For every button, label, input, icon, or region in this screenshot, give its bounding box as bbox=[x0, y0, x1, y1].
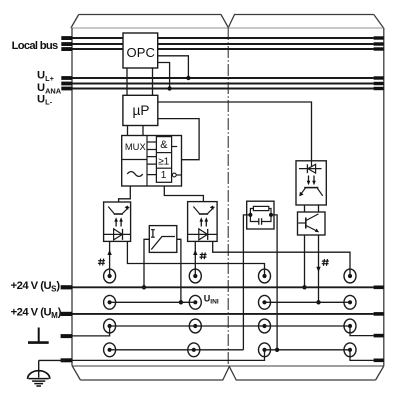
gate stack box bbox=[156, 137, 171, 183]
power bus pad right 1 bbox=[374, 76, 384, 79]
FE row D line bbox=[72, 350, 265, 361]
input arrow channel 2 bbox=[194, 241, 196, 276]
module center dash-dot line bbox=[227, 28, 229, 366]
housing top inner line bbox=[71, 27, 384, 29]
wire uP to MUX right bbox=[142, 126, 144, 136]
UINI row right segment bbox=[265, 301, 351, 303]
circle row1 c2 bbox=[189, 295, 201, 309]
junction dot Q1 to US rail bbox=[302, 285, 306, 289]
svg-text:Local bus: Local bus bbox=[12, 40, 58, 52]
local bus line 3 bbox=[72, 48, 374, 50]
uP box U2 bbox=[123, 95, 158, 125]
junction dot I box to US rail bbox=[142, 285, 146, 289]
wire opto2 cathode return bbox=[213, 241, 350, 276]
housing bottom-left chamfer bbox=[72, 366, 80, 380]
Q1 collector bbox=[306, 214, 319, 221]
circle row2 c1 bbox=[104, 319, 116, 333]
FE row right (row3) bbox=[265, 349, 351, 351]
inverter output tick bbox=[176, 174, 181, 176]
US pad right bbox=[374, 286, 384, 290]
housing right edge bbox=[383, 28, 385, 366]
gate input ticks bbox=[147, 142, 156, 175]
I box left pin bbox=[144, 239, 149, 287]
housing bottom inner line bbox=[72, 365, 384, 367]
GND row (row2) bbox=[110, 325, 350, 327]
local bus line 2 bbox=[72, 43, 374, 45]
junction dot on UL+ line bbox=[186, 76, 190, 80]
svg-text:≥1: ≥1 bbox=[158, 156, 170, 167]
circle row0 c4 bbox=[344, 269, 356, 283]
RC right leg to FE row bbox=[271, 215, 277, 350]
circle row0 c1 bbox=[104, 269, 116, 283]
power bus pad right 3 bbox=[374, 87, 384, 90]
input channel 1 # label bbox=[98, 259, 105, 266]
svg-text:OPC: OPC bbox=[127, 45, 155, 60]
local bus pad left 2 bbox=[61, 42, 72, 46]
svg-text:MUX: MUX bbox=[125, 141, 147, 152]
junction dot on UL- line bbox=[167, 86, 171, 90]
local bus line 1 bbox=[72, 37, 374, 39]
OC3 to transistor pins bbox=[305, 205, 319, 212]
earth symbol bbox=[39, 360, 65, 377]
output channel # label bbox=[322, 259, 329, 266]
I box right pin bbox=[177, 239, 181, 302]
wire OPC to uP right bbox=[152, 68, 154, 95]
circle row1 c4 bbox=[344, 295, 356, 309]
wire OPC to power bus line 3 bbox=[158, 63, 170, 89]
GND pad link right bbox=[350, 326, 374, 336]
circle row3 c3 bbox=[259, 343, 271, 357]
Q1 base bar bbox=[305, 218, 307, 229]
circle row0 c2 bbox=[189, 269, 201, 283]
Q1 output leg with arrow to UINI row bbox=[318, 235, 320, 302]
FE pad left bbox=[61, 358, 73, 362]
OC1 phototransistor bbox=[114, 213, 123, 215]
input arrow channel 1 bbox=[109, 241, 111, 276]
housing bottom-right chamfer bbox=[376, 366, 384, 380]
sine symbol in MUX lower cell bbox=[127, 172, 142, 177]
MUX logic block outer box U3 bbox=[122, 136, 182, 187]
US pad left bbox=[61, 285, 73, 289]
RC left leg to shield row bbox=[243, 215, 250, 350]
GND pad link left bbox=[72, 326, 110, 336]
local bus pad left 1 bbox=[61, 36, 72, 40]
inverter output circle bbox=[172, 173, 176, 177]
power bus pad left 2 bbox=[61, 82, 72, 86]
circle row0 c3 bbox=[259, 269, 271, 283]
+24V UM rail bbox=[72, 313, 374, 315]
GND pad left bbox=[61, 334, 73, 338]
optocoupler OC1 box bbox=[104, 202, 131, 241]
UM pad left bbox=[61, 312, 73, 316]
circle row3 c2 bbox=[188, 343, 200, 357]
OC2 phototransistor bbox=[199, 213, 208, 215]
resistor R1 bbox=[253, 206, 268, 210]
housing top outer edge with notch bbox=[79, 15, 374, 28]
housing bottom outer edge with notch bbox=[80, 367, 375, 381]
circle row1 c3 bbox=[259, 295, 271, 309]
OC2 LED diode bbox=[188, 233, 218, 235]
circle row2 c2 bbox=[189, 319, 201, 333]
input channel 2 # label bbox=[200, 252, 207, 259]
housing top-left chamfer bbox=[71, 15, 79, 29]
wire MUX to opto1 top bbox=[119, 186, 131, 202]
MUX cell divider horizontal bbox=[122, 159, 147, 161]
output optocoupler OC3 box bbox=[296, 161, 326, 205]
OC3 light arrows down bbox=[309, 176, 315, 182]
wire opto1 cathode return bbox=[127, 241, 264, 276]
AND gate output tick bbox=[172, 146, 178, 148]
svg-text:µP: µP bbox=[133, 103, 150, 118]
OC3 LED wire bbox=[311, 161, 313, 166]
OC1 light arrows bbox=[116, 221, 121, 227]
transistor Q1 box bbox=[298, 212, 326, 235]
local bus pad right 2 bbox=[374, 42, 384, 45]
circle row3 c4 bbox=[344, 343, 356, 357]
MUX cell divider vertical bbox=[146, 136, 148, 187]
RC filter box bbox=[247, 201, 274, 229]
shield row left (row3) bbox=[110, 349, 244, 351]
power bus pad right 2 bbox=[374, 82, 384, 85]
circle row3 c1 bbox=[104, 343, 116, 357]
OC3 LED diode bbox=[308, 164, 316, 173]
circle row2 c4 bbox=[344, 319, 356, 333]
GND pad right bbox=[374, 334, 384, 338]
UINI row left segment bbox=[110, 301, 196, 303]
svg-text:1: 1 bbox=[161, 170, 167, 181]
junction dot I box to UINI row bbox=[179, 300, 183, 304]
wire gates to opto2 top bbox=[164, 186, 203, 202]
optocoupler OC2 box bbox=[188, 202, 218, 242]
circle row1 c1 bbox=[104, 295, 116, 309]
local bus pad left 3 bbox=[61, 47, 72, 51]
OPC box U1 bbox=[123, 33, 158, 68]
svg-text:&: & bbox=[160, 139, 168, 151]
ramp curve bbox=[151, 237, 175, 250]
local bus pad right 1 bbox=[374, 36, 384, 39]
wire uP to opto-output (right channel) bbox=[158, 102, 312, 161]
current limiter box I bbox=[149, 226, 177, 253]
+24V US rail bbox=[72, 286, 374, 288]
gate divider 2 bbox=[156, 167, 171, 169]
circle row2 c3 bbox=[259, 319, 271, 333]
housing left edge bbox=[71, 28, 73, 366]
Q1 left leg to US rail bbox=[304, 235, 306, 287]
OC1 LED diode bbox=[104, 233, 131, 235]
Q1 emitter bbox=[306, 225, 319, 232]
OC3 phototransistor bbox=[304, 187, 318, 189]
power bus pad left 1 bbox=[61, 76, 72, 80]
Q1 base lead bbox=[298, 222, 306, 224]
wire OPC to uP left bbox=[126, 68, 128, 95]
UM pad right bbox=[374, 312, 384, 316]
FE pad right bbox=[374, 359, 384, 363]
gate divider 1 bbox=[156, 152, 171, 154]
local bus pad right 3 bbox=[374, 47, 384, 50]
RC node dots bbox=[248, 213, 252, 217]
housing top-right chamfer bbox=[374, 15, 384, 29]
FE pad link right bbox=[350, 350, 374, 361]
wire uP to OR-gate output bbox=[158, 119, 200, 160]
OC2 light arrows bbox=[201, 221, 206, 227]
GND symbol bbox=[38, 328, 40, 342]
power bus pad left 3 bbox=[61, 87, 72, 91]
wire OPC to local bus line 1 bbox=[158, 56, 189, 78]
wire uP to MUX left bbox=[127, 126, 129, 136]
power bus line UL- bbox=[72, 88, 374, 90]
capacitor C1 bbox=[250, 215, 271, 222]
power bus line UANA bbox=[72, 83, 374, 85]
junction dot RC to FE row bbox=[275, 348, 279, 352]
resistor wiring bbox=[250, 209, 271, 215]
power bus line UL+ bbox=[72, 77, 374, 79]
junction dot Q1 output on UINI right row bbox=[316, 300, 320, 304]
